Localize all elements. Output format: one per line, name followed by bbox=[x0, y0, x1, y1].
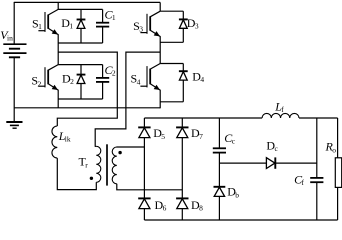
wire bridge leg D5 D6 bbox=[143, 118, 145, 220]
svg-text:Ro: Ro bbox=[325, 140, 337, 155]
svg-text:S1: S1 bbox=[32, 17, 42, 32]
label C2 bbox=[105, 63, 116, 78]
svg-text:Db: Db bbox=[227, 185, 239, 200]
wire bridge leg D7 D8 bbox=[181, 118, 183, 220]
label D2 bbox=[62, 71, 74, 86]
diode D3 bbox=[179, 11, 188, 42]
svg-text:Llk: Llk bbox=[58, 129, 71, 144]
wire secondary top rail bbox=[144, 117, 262, 119]
capacitor Cf bbox=[310, 178, 323, 220]
wire secondary bottom rail bbox=[144, 219, 337, 221]
capacitor C2 bbox=[96, 65, 109, 99]
wire Llk to Tr primary bbox=[57, 158, 96, 190]
wire top rail bbox=[14, 1, 160, 3]
wire D2 C2 bottom bbox=[58, 98, 102, 100]
svg-text:C1: C1 bbox=[105, 8, 116, 23]
diode D6 bbox=[138, 198, 150, 208]
wire battery positive lead bbox=[13, 2, 15, 44]
label C1 bbox=[105, 8, 116, 23]
wire Dc to output bbox=[275, 162, 317, 164]
diode D2 bbox=[77, 65, 86, 99]
diode D7 bbox=[176, 127, 188, 137]
wire S1 collector bbox=[57, 2, 59, 9]
wire Ro bottom lead bbox=[337, 187, 339, 220]
label D6 bbox=[155, 198, 167, 213]
wire D4 bottom bbox=[160, 101, 183, 103]
wire D2 C2 top bbox=[58, 64, 102, 66]
label Llk bbox=[58, 129, 71, 144]
wire battery negative lead bbox=[13, 57, 15, 122]
label Cf bbox=[294, 172, 304, 187]
wire Lf to output bbox=[299, 117, 338, 119]
svg-text:D5: D5 bbox=[153, 126, 165, 141]
ground bbox=[6, 122, 22, 128]
svg-text:D7: D7 bbox=[191, 126, 203, 141]
svg-text:D8: D8 bbox=[191, 198, 203, 213]
diode D1 bbox=[77, 9, 86, 43]
wire D1 C1 bottom bbox=[58, 42, 102, 44]
diode Dc bbox=[266, 157, 275, 168]
wire leg1 to Llk bbox=[57, 52, 117, 126]
wire leg2 midpoint bbox=[159, 36, 161, 63]
inductor Llk bbox=[52, 126, 57, 158]
transistor S1 bbox=[32, 9, 58, 34]
diode D8 bbox=[176, 198, 188, 208]
label D4 bbox=[192, 70, 204, 85]
label D8 bbox=[191, 198, 203, 213]
label D1 bbox=[61, 16, 73, 31]
svg-text:Vin: Vin bbox=[0, 28, 13, 43]
svg-text:Tr: Tr bbox=[79, 155, 89, 170]
wire Tr secondary to bridge top bbox=[117, 146, 145, 148]
label Tr bbox=[79, 155, 89, 170]
svg-text:S2: S2 bbox=[31, 74, 41, 89]
diode Db bbox=[214, 187, 226, 220]
svg-text:Lf: Lf bbox=[274, 99, 284, 114]
svg-text:D3: D3 bbox=[187, 16, 199, 31]
transistor S4 bbox=[131, 64, 161, 91]
label D7 bbox=[191, 126, 203, 141]
svg-text:D6: D6 bbox=[155, 198, 167, 213]
label Ro bbox=[325, 140, 337, 155]
svg-text:S3: S3 bbox=[133, 19, 143, 34]
label Dc bbox=[266, 139, 278, 154]
battery Vin bbox=[3, 44, 26, 57]
wire D3 top bbox=[160, 10, 183, 12]
svg-text:D4: D4 bbox=[192, 70, 204, 85]
wire S4 emitter bbox=[159, 90, 161, 109]
wire bottom rail bbox=[14, 107, 160, 109]
svg-text:S4: S4 bbox=[131, 72, 141, 87]
svg-text:Cf: Cf bbox=[294, 172, 304, 187]
svg-text:C2: C2 bbox=[105, 63, 116, 78]
transistor S3 bbox=[133, 11, 160, 36]
label Cc bbox=[224, 131, 235, 146]
transformer Tr secondary winding bbox=[112, 147, 117, 184]
wire Tr secondary to bridge bottom bbox=[117, 184, 183, 190]
capacitor C1 bbox=[96, 9, 109, 43]
wire D1 C1 top bbox=[58, 8, 102, 10]
transformer core bbox=[106, 144, 108, 185]
wire output node down bbox=[316, 118, 318, 177]
transistor S2 bbox=[31, 65, 58, 91]
wire D4 top bbox=[160, 63, 183, 65]
transformer polarity dot primary bbox=[90, 177, 93, 180]
svg-text:Cc: Cc bbox=[224, 131, 235, 146]
label D3 bbox=[187, 16, 199, 31]
wire Cc Dc node bbox=[219, 162, 266, 164]
label Vin bbox=[0, 28, 13, 43]
capacitor Cc bbox=[213, 118, 226, 187]
resistor Ro bbox=[335, 158, 341, 188]
wire leg1 midpoint bbox=[57, 34, 59, 64]
transformer polarity dot secondary bbox=[118, 151, 121, 154]
transformer Tr primary winding bbox=[96, 146, 101, 182]
diode D4 bbox=[179, 64, 188, 102]
svg-text:D1: D1 bbox=[61, 16, 73, 31]
label Lf bbox=[274, 99, 284, 114]
wire S2 emitter bbox=[57, 90, 59, 108]
wire Ro top lead bbox=[337, 118, 339, 158]
svg-text:D2: D2 bbox=[62, 71, 74, 86]
svg-text:Dc: Dc bbox=[266, 139, 278, 154]
label Db bbox=[227, 185, 239, 200]
inductor Lf bbox=[262, 113, 299, 118]
wire leg2 to Tr primary bbox=[95, 52, 160, 146]
wire D3 bottom bbox=[160, 41, 183, 43]
diode D5 bbox=[138, 127, 150, 137]
wire S3 collector bbox=[159, 2, 161, 11]
label D5 bbox=[153, 126, 165, 141]
